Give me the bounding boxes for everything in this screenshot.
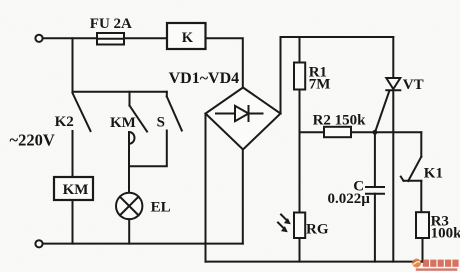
resistor R1	[294, 63, 305, 90]
terminal T2 bottom-left	[35, 240, 42, 247]
wire C to lower rail	[374, 194, 376, 262]
wire node to capacitor C	[374, 132, 376, 187]
wire KM contact to lamp	[128, 133, 130, 194]
svg-text:KM: KM	[63, 182, 89, 198]
terminal T1 top-left	[35, 35, 42, 42]
svg-text:VT: VT	[403, 77, 424, 93]
svg-text:R2 150k: R2 150k	[313, 112, 367, 128]
svg-text:VD1~VD4: VD1~VD4	[169, 70, 240, 87]
switch K2	[73, 93, 91, 131]
wire RG to lower rail	[299, 238, 301, 262]
svg-text:~220V: ~220V	[10, 130, 55, 149]
wire to R1	[299, 37, 301, 63]
coil KM box	[54, 177, 93, 200]
wire branch down to switch rail	[72, 38, 74, 92]
wire lower DC rail	[206, 261, 423, 263]
svg-text:S: S	[157, 115, 165, 131]
node G junction dot	[373, 130, 378, 135]
wire K2 to KM coil	[72, 131, 74, 177]
light arrows into RG	[278, 215, 291, 233]
wire lamp to bottom rail	[128, 219, 130, 243]
switch KM	[129, 92, 147, 144]
wire K1 to R3	[420, 181, 422, 212]
wire R3 to lower rail	[422, 238, 424, 262]
resistor R2	[324, 127, 351, 137]
svg-text:KM: KM	[110, 115, 136, 131]
photoresistor RG	[294, 213, 305, 239]
watermark logo	[412, 259, 459, 271]
svg-text:0.022µ: 0.022µ	[328, 191, 371, 207]
wire from K to bridge top	[206, 38, 243, 87]
relay contact K1	[401, 132, 422, 181]
thyristor VT	[375, 37, 400, 262]
svg-text:7M: 7M	[309, 76, 331, 92]
svg-text:K2: K2	[55, 114, 74, 130]
wire top AC rail left	[43, 37, 167, 39]
capacitor C	[366, 187, 384, 194]
svg-text:RG: RG	[306, 222, 329, 238]
lamp EL	[116, 193, 142, 219]
svg-text:EL: EL	[151, 200, 171, 216]
wire switch rail	[73, 91, 167, 93]
wire KM coil to bottom rail	[72, 200, 74, 244]
svg-text:FU 2A: FU 2A	[90, 16, 132, 32]
wire R1 to RG	[299, 90, 301, 213]
switch S	[167, 92, 182, 131]
svg-text:100k: 100k	[431, 226, 460, 242]
wire bridge bottom vertex down	[242, 150, 244, 244]
svg-text:K: K	[182, 30, 194, 46]
wire DC minus: bridge left vertex down to lower rail	[205, 114, 207, 262]
svg-text:K1: K1	[424, 165, 443, 181]
wire DC plus: bridge right vertex up	[280, 37, 282, 114]
bridge rectifier VD1~VD4	[206, 88, 281, 150]
wire R2 to K1 branch	[351, 131, 421, 133]
wire to R2	[300, 131, 325, 133]
fuse FU	[97, 33, 124, 45]
wire bottom AC rail	[43, 243, 243, 245]
relay contact box K	[167, 23, 206, 49]
resistor R3	[416, 212, 429, 238]
wire S branch down and left	[129, 131, 167, 167]
wire top DC rail	[281, 36, 394, 38]
